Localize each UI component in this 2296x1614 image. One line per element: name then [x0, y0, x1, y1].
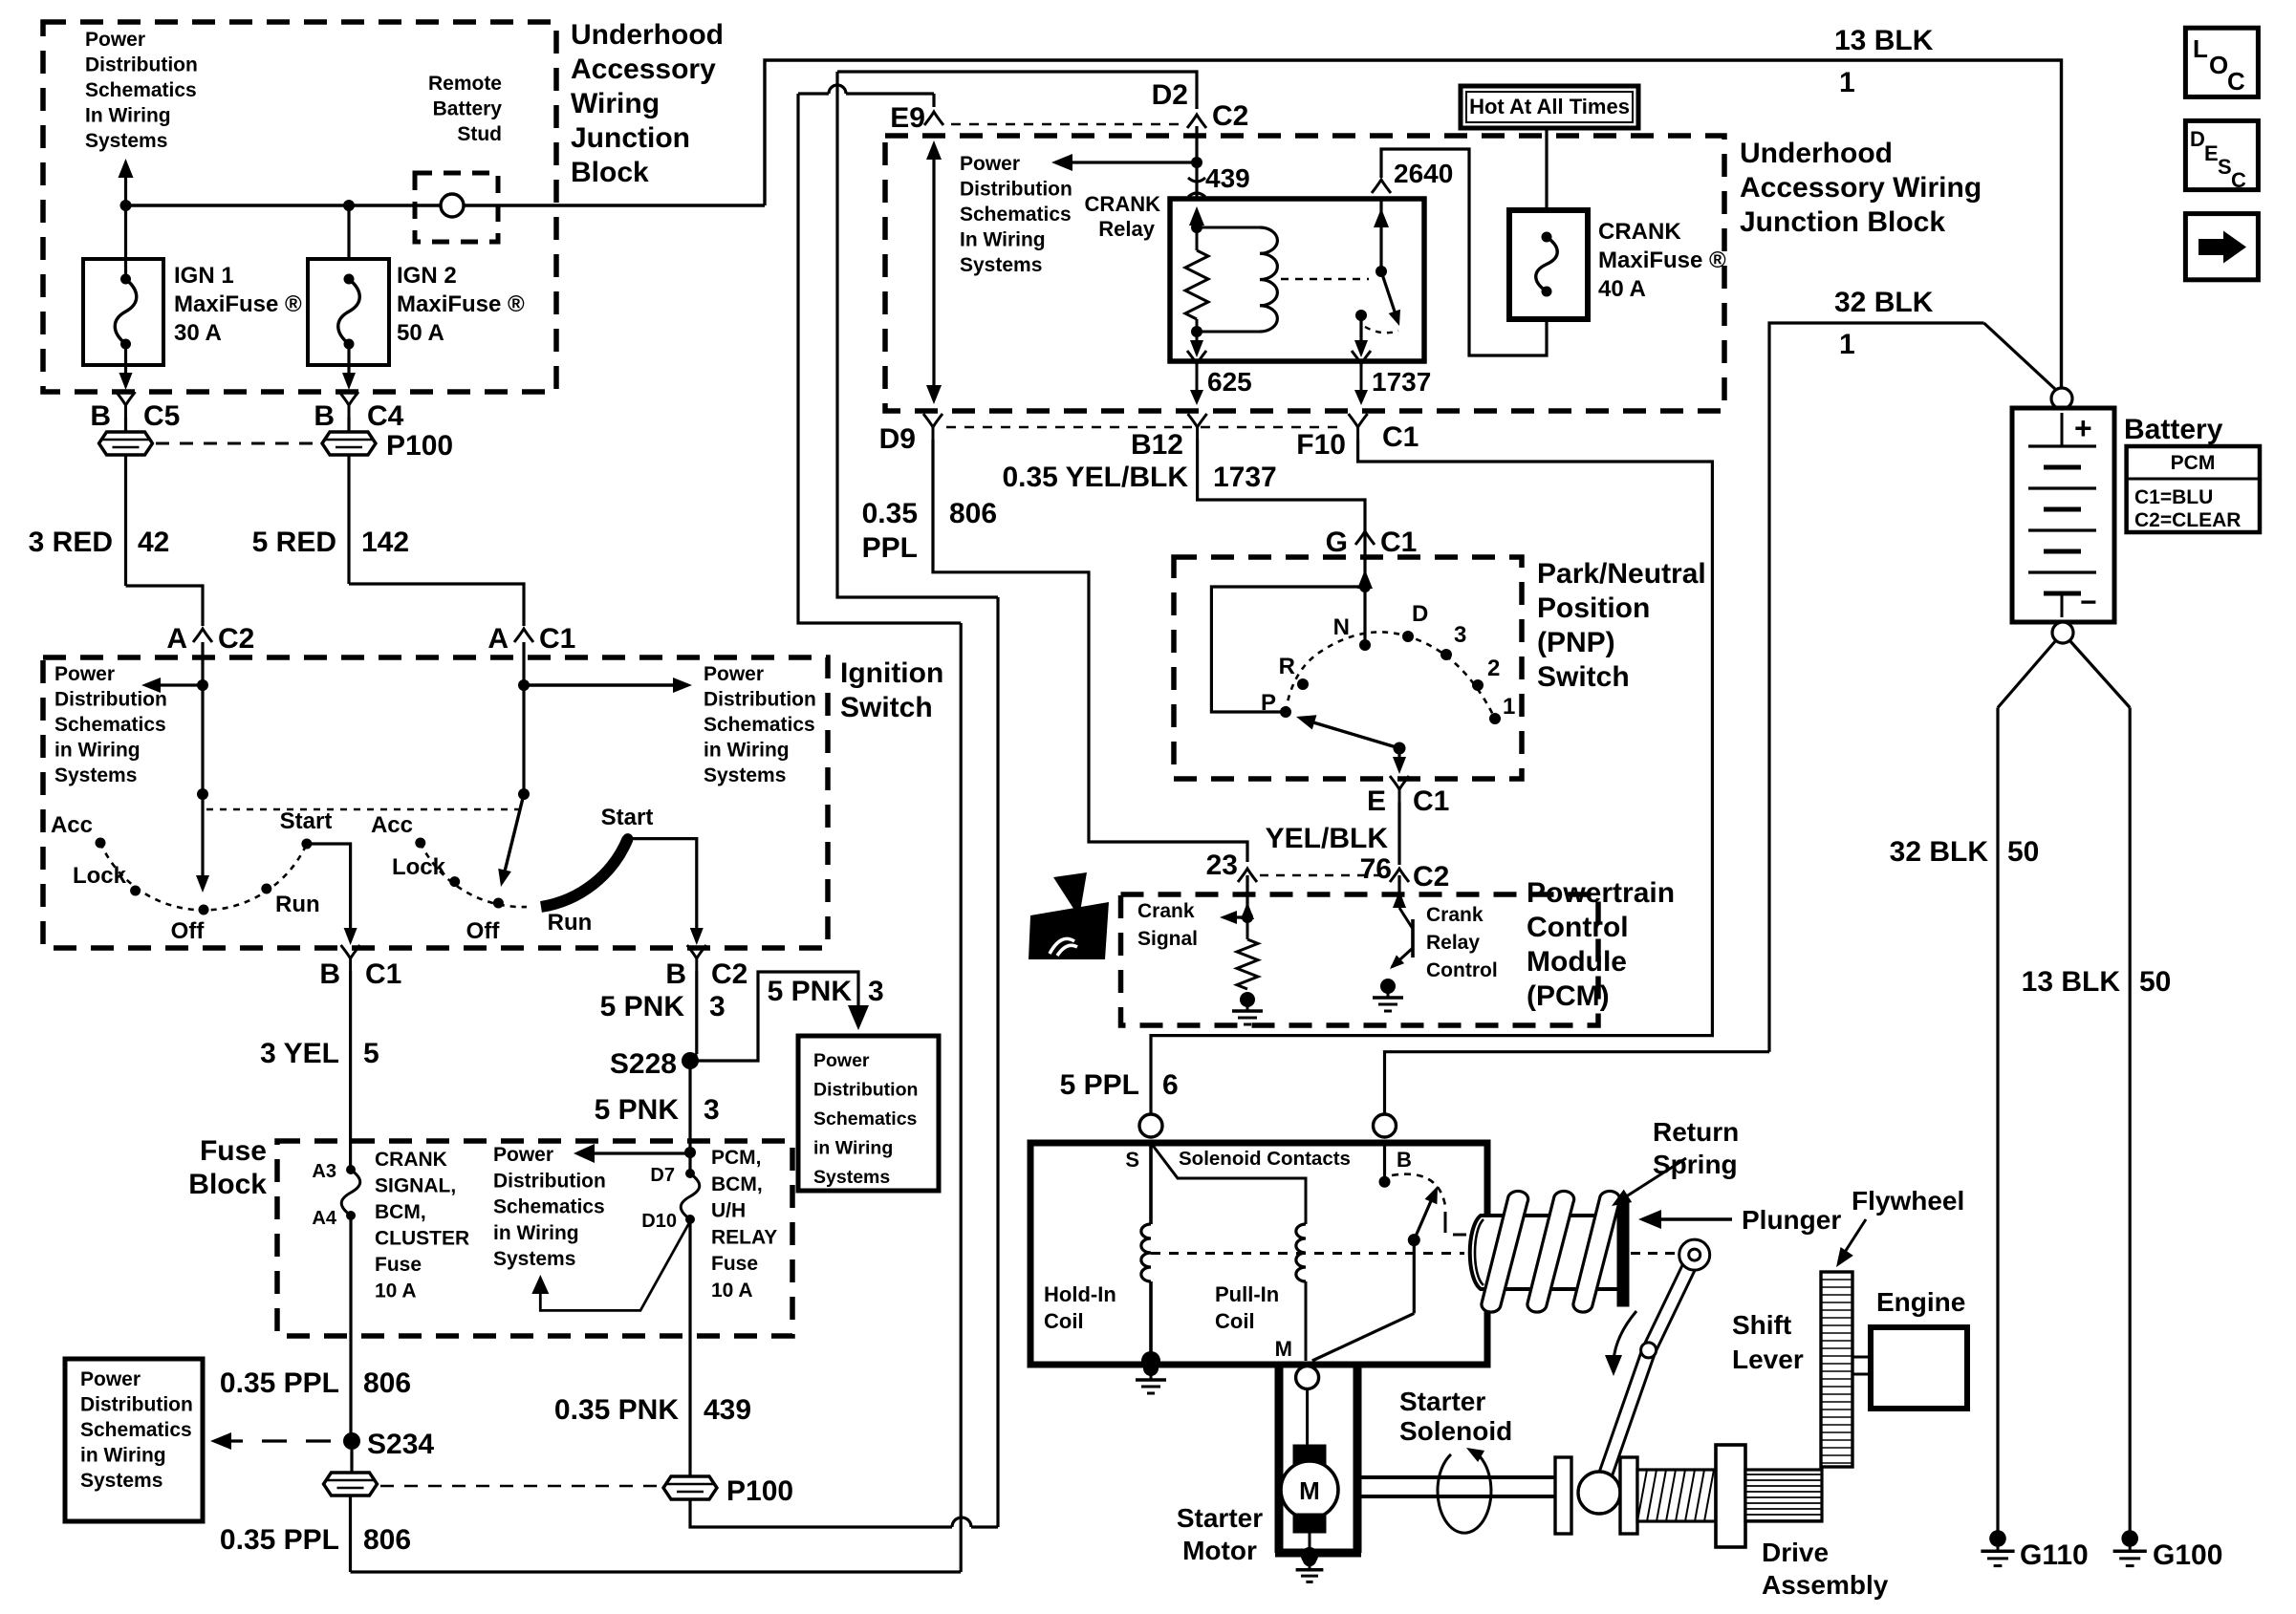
wire Start right to B C2 — [628, 839, 697, 937]
svg-text:3: 3 — [704, 1094, 720, 1126]
svg-text:Lock: Lock — [392, 854, 446, 880]
terminal B circle — [1374, 1114, 1397, 1137]
relay switch pivot — [1375, 266, 1387, 277]
ground G110 — [1989, 1530, 2006, 1547]
svg-text:10 A: 10 A — [711, 1280, 753, 1302]
shift lever top eye — [1679, 1239, 1710, 1270]
svg-text:G100: G100 — [2153, 1539, 2222, 1571]
relay node top — [1191, 222, 1202, 233]
wire S228 branch — [690, 972, 858, 1061]
svg-text:806: 806 — [363, 1524, 411, 1556]
arrow fuse block power dist — [589, 1151, 690, 1154]
svg-text:Powertrain: Powertrain — [1527, 877, 1675, 909]
plunger body — [1470, 1216, 1619, 1289]
splice S228 — [682, 1052, 699, 1069]
svg-text:B: B — [665, 958, 686, 990]
svg-text:50: 50 — [2139, 966, 2171, 998]
svg-text:C1: C1 — [365, 958, 401, 990]
return spring arrow — [1617, 1158, 1686, 1202]
battery ground split — [1998, 640, 2056, 708]
motor brush bottom — [1293, 1514, 1326, 1533]
svg-text:in Wiring: in Wiring — [493, 1222, 579, 1244]
relay dashed link — [1281, 278, 1369, 281]
svg-text:Fuse: Fuse — [375, 1254, 422, 1276]
svg-text:Junction Block: Junction Block — [1740, 206, 1945, 238]
wire 32 BLK — [1769, 323, 1984, 1052]
desc box — [2185, 120, 2258, 189]
svg-text:40 A: 40 A — [1598, 276, 1646, 302]
svg-text:MaxiFuse ®: MaxiFuse ® — [174, 291, 302, 317]
wire D10 to P100 — [688, 1219, 691, 1476]
svg-text:1: 1 — [1839, 329, 1855, 360]
svg-text:32 BLK: 32 BLK — [1890, 836, 1989, 868]
svg-text:BCM,: BCM, — [711, 1173, 763, 1195]
svg-text:42: 42 — [138, 527, 169, 558]
relay switch arm — [1381, 271, 1397, 317]
svg-text:Remote: Remote — [428, 73, 502, 95]
svg-text:D9: D9 — [879, 423, 916, 455]
relay node bottom — [1191, 326, 1202, 337]
pinion striped — [1745, 1470, 1822, 1521]
svg-text:Coil: Coil — [1215, 1309, 1255, 1333]
svg-text:0.35 PPL: 0.35 PPL — [220, 1367, 339, 1399]
flywheel — [1821, 1272, 1852, 1467]
svg-text:C2: C2 — [1212, 100, 1248, 132]
svg-text:0.35 YEL/BLK: 0.35 YEL/BLK — [1002, 462, 1188, 493]
svg-text:Distribution: Distribution — [704, 689, 816, 711]
svg-text:3: 3 — [709, 991, 726, 1022]
contact Acc left — [96, 838, 106, 849]
pnp feed elbow — [1211, 587, 1365, 712]
svg-text:5 RED: 5 RED — [252, 527, 336, 558]
svg-text:G: G — [1326, 527, 1348, 558]
svg-text:Power: Power — [85, 29, 145, 51]
wire to P100 left — [124, 418, 127, 432]
svg-text:PPL: PPL — [862, 532, 918, 564]
svg-text:439: 439 — [704, 1394, 751, 1426]
svg-text:Engine: Engine — [1876, 1287, 1965, 1317]
svg-text:Systems: Systems — [960, 254, 1042, 276]
dashed link lower P100 pair — [380, 1485, 660, 1488]
contact arc right dashed — [421, 843, 527, 907]
svg-text:Wiring: Wiring — [571, 88, 660, 119]
contact Start left — [301, 839, 312, 850]
svg-text:Block: Block — [188, 1169, 267, 1200]
svg-text:C1: C1 — [1382, 421, 1419, 453]
moving contact dashes — [1444, 1212, 1447, 1233]
wire IGN2 drop — [347, 205, 350, 259]
connector row C1 dashed — [946, 426, 1346, 429]
junction block 1 dashed box — [43, 22, 556, 392]
solenoid box — [1030, 1143, 1487, 1365]
svg-text:N: N — [1333, 614, 1350, 640]
relay down arrow left — [1196, 332, 1199, 348]
wire G into pnp — [1363, 531, 1366, 587]
contact Off left — [199, 905, 209, 915]
svg-text:6: 6 — [1162, 1069, 1179, 1101]
svg-text:G110: G110 — [2020, 1539, 2089, 1571]
battery box — [2012, 408, 2114, 622]
svg-text:D10: D10 — [641, 1211, 677, 1232]
engine box — [1871, 1327, 1967, 1409]
solenoid ground — [1141, 1351, 1160, 1370]
relay coil feed arrow — [1189, 206, 1204, 226]
fuse A3 A4 — [346, 1165, 356, 1174]
wire 5 PNK 3 down — [688, 1061, 691, 1173]
motor brush top — [1293, 1445, 1326, 1464]
svg-text:Underhood: Underhood — [1740, 138, 1893, 169]
svg-text:1: 1 — [1503, 694, 1515, 720]
return spring coils — [1482, 1191, 1528, 1312]
svg-text:13 BLK: 13 BLK — [2022, 966, 2121, 998]
svg-text:3 RED: 3 RED — [29, 527, 113, 558]
wire PNK bottom to corner — [971, 1525, 998, 1528]
svg-text:C1: C1 — [539, 623, 575, 655]
pcm legend box — [2127, 446, 2260, 532]
svg-text:B12: B12 — [1131, 429, 1183, 461]
svg-text:Systems: Systems — [813, 1167, 890, 1188]
pointer to power dist — [540, 1221, 690, 1310]
svg-text:Assembly: Assembly — [1762, 1570, 1889, 1600]
svg-text:10 A: 10 A — [375, 1280, 417, 1302]
wire S to holdin — [1149, 1143, 1153, 1224]
mech dashes to lever — [1631, 1252, 1675, 1255]
connector B C5 — [117, 392, 136, 418]
crank maxifuse box — [1509, 210, 1588, 319]
svg-text:23: 23 — [1206, 850, 1238, 881]
svg-text:142: 142 — [361, 527, 409, 558]
svg-text:Starter: Starter — [1399, 1387, 1485, 1416]
svg-text:Signal: Signal — [1137, 928, 1198, 950]
pcm transistor ground — [1380, 979, 1396, 994]
svg-text:P100: P100 — [726, 1475, 793, 1507]
node crank signal — [1242, 912, 1253, 923]
svg-text:D: D — [2190, 127, 2205, 151]
svg-text:Accessory Wiring: Accessory Wiring — [1740, 172, 1982, 204]
svg-text:Flywheel: Flywheel — [1852, 1186, 1964, 1216]
node IGN2 branch — [343, 200, 355, 211]
node left ign lower — [197, 788, 208, 800]
svg-text:B: B — [90, 400, 111, 432]
contact 3 — [1440, 649, 1452, 660]
node right ign lower — [518, 788, 530, 800]
svg-text:C5: C5 — [143, 400, 180, 432]
contact 2 — [1472, 679, 1484, 691]
connector B C1 ign — [341, 945, 360, 971]
svg-text:Schematics: Schematics — [54, 714, 166, 736]
wire to N contact — [1363, 587, 1366, 640]
svg-text:5: 5 — [363, 1038, 379, 1069]
pullin coil — [1296, 1224, 1306, 1281]
connector B C2 ign — [687, 945, 706, 971]
wire contact to M — [1413, 1240, 1416, 1314]
shift lever ball — [1578, 1472, 1620, 1514]
svg-text:in Wiring: in Wiring — [54, 740, 141, 762]
svg-text:(PCM): (PCM) — [1527, 980, 1610, 1012]
pcm pin 76 C2 — [1390, 869, 1409, 882]
wire 3 YEL 5 — [349, 971, 352, 1170]
svg-text:Park/Neutral: Park/Neutral — [1537, 558, 1706, 590]
svg-text:Plunger: Plunger — [1742, 1205, 1841, 1235]
hop PNK over PPL — [952, 1517, 971, 1527]
wire 0.35 PPL 806 lower — [349, 1496, 352, 1572]
svg-text:Schematics: Schematics — [493, 1196, 605, 1218]
svg-text:CLUSTER: CLUSTER — [375, 1228, 469, 1250]
contact Lock left — [130, 886, 141, 896]
moving contact — [1408, 1234, 1420, 1246]
node IGN1 branch — [120, 200, 132, 211]
wire pin 23 into pcm — [1245, 875, 1248, 911]
internal wire E9-D9 — [932, 148, 935, 397]
svg-text:D7: D7 — [650, 1165, 675, 1186]
junction block 2 dashed box — [885, 136, 1724, 411]
svg-text:A4: A4 — [312, 1208, 336, 1229]
flywheel arrow — [1840, 1219, 1866, 1259]
wire 13 BLK 50 — [2129, 708, 2132, 1532]
svg-text:D2: D2 — [1152, 79, 1188, 111]
pcm pin 23 — [1238, 869, 1257, 882]
svg-text:5 PPL: 5 PPL — [1060, 1069, 1139, 1101]
svg-text:Relay: Relay — [1426, 932, 1480, 954]
connector D2 — [1187, 115, 1206, 128]
pcm resistor — [1246, 917, 1249, 939]
svg-text:B: B — [1397, 1148, 1412, 1172]
rotation arrow — [1438, 1451, 1491, 1533]
svg-text:P: P — [1261, 690, 1276, 716]
connector F10 — [1349, 414, 1368, 440]
node D7 branch — [684, 1147, 696, 1158]
svg-text:C2: C2 — [1413, 861, 1449, 893]
svg-text:C: C — [2227, 67, 2245, 96]
pcm connector row dashed — [1260, 874, 1386, 876]
engine nub — [1852, 1357, 1871, 1374]
wire holdin to ground — [1149, 1281, 1153, 1361]
svg-text:Control: Control — [1426, 959, 1498, 981]
grommet P100 upper-left — [99, 432, 153, 455]
svg-text:Crank: Crank — [1137, 900, 1195, 922]
motor frame — [1275, 1365, 1284, 1553]
battery bottom terminal — [2052, 622, 2073, 643]
wire PPL elbow top — [798, 94, 961, 623]
svg-text:Drive: Drive — [1762, 1538, 1829, 1567]
contact N — [1359, 639, 1371, 651]
svg-text:S: S — [1125, 1148, 1139, 1172]
contact R — [1297, 678, 1309, 690]
svg-text:−: − — [2080, 587, 2097, 618]
svg-text:625: 625 — [1207, 367, 1252, 397]
svg-text:Systems: Systems — [704, 764, 786, 786]
svg-text:Switch: Switch — [1537, 661, 1630, 693]
svg-text:In Wiring: In Wiring — [960, 229, 1046, 251]
wire B from 32BLK — [1385, 1052, 1770, 1137]
svg-text:Position: Position — [1537, 592, 1650, 624]
svg-text:0.35 PPL: 0.35 PPL — [220, 1524, 339, 1556]
svg-text:Distribution: Distribution — [813, 1080, 918, 1101]
wire elbow to A C1 — [349, 584, 524, 626]
wire PNK to D2 run — [837, 72, 1197, 109]
fuse D7 D10 — [685, 1169, 695, 1178]
wire A C2 into switch — [201, 642, 204, 883]
grommet P100 upper-right — [322, 432, 376, 455]
wire PNK bottom run — [690, 1499, 952, 1527]
svg-text:Systems: Systems — [493, 1248, 575, 1270]
wire A4 down to S234 — [349, 1216, 352, 1435]
plunger end plate — [1617, 1200, 1629, 1306]
svg-text:(PNP): (PNP) — [1537, 627, 1615, 658]
wire PPL to E9 with hop — [798, 92, 829, 95]
wire D2 to relay — [1195, 126, 1198, 199]
arrow right power dist — [524, 683, 681, 686]
crank maxifuse element — [1542, 232, 1552, 243]
svg-text:in Wiring: in Wiring — [704, 740, 790, 762]
svg-text:C2: C2 — [711, 958, 747, 990]
svg-text:Systems: Systems — [85, 130, 167, 152]
svg-text:2: 2 — [1487, 656, 1500, 681]
loc box — [2185, 28, 2258, 97]
svg-text:MaxiFuse ®: MaxiFuse ® — [1598, 247, 1726, 273]
svg-text:F10: F10 — [1296, 429, 1346, 461]
pcm dashed box — [1121, 894, 1599, 1025]
svg-text:SIGNAL,: SIGNAL, — [375, 1175, 456, 1197]
motor ground — [1301, 1547, 1318, 1564]
wire 5 PPL 6 from F10 — [1151, 440, 1712, 1115]
thick arc Run-Start — [541, 839, 628, 907]
contact D — [1402, 631, 1414, 642]
svg-text:Run: Run — [275, 892, 320, 917]
svg-text:CRANK: CRANK — [1598, 219, 1681, 245]
svg-text:in Wiring: in Wiring — [813, 1138, 893, 1159]
grommet P100 lower-left — [324, 1473, 378, 1496]
svg-text:IGN 1: IGN 1 — [174, 263, 234, 289]
power distribution box bottom left — [65, 1359, 203, 1521]
svg-text:S228: S228 — [610, 1048, 677, 1080]
pnp contact arc — [1286, 632, 1495, 719]
svg-text:Start: Start — [280, 808, 333, 834]
svg-text:Lock: Lock — [73, 863, 127, 889]
wire pullin down — [1305, 1281, 1308, 1361]
svg-text:E: E — [2204, 141, 2219, 165]
wire M down — [1306, 1388, 1309, 1445]
svg-text:Distribution: Distribution — [493, 1170, 606, 1192]
svg-text:U/H: U/H — [711, 1200, 746, 1222]
drive plate 2 — [1620, 1457, 1637, 1534]
svg-text:Distribution: Distribution — [54, 689, 167, 711]
shaft end plate — [1555, 1457, 1571, 1534]
svg-text:1737: 1737 — [1372, 367, 1431, 397]
svg-text:1: 1 — [1839, 67, 1855, 98]
svg-text:Schematics: Schematics — [813, 1108, 918, 1130]
svg-text:A: A — [166, 623, 187, 655]
svg-text:MaxiFuse ®: MaxiFuse ® — [397, 291, 525, 317]
svg-text:Power: Power — [493, 1144, 553, 1166]
wire elbow to A C2 — [126, 586, 204, 626]
contact P — [1280, 706, 1291, 718]
connector G C1 — [1355, 531, 1375, 545]
svg-text:0.35 PNK: 0.35 PNK — [554, 1394, 679, 1426]
svg-text:C2: C2 — [218, 623, 254, 655]
crank relay box — [1170, 199, 1424, 361]
arrow 439 power dist — [1063, 161, 1197, 163]
svg-text:76: 76 — [1360, 853, 1392, 885]
mech dashed line — [1151, 1252, 1464, 1255]
svg-text:Return: Return — [1653, 1117, 1739, 1147]
svg-text:A3: A3 — [312, 1161, 336, 1182]
svg-text:Module: Module — [1527, 946, 1627, 978]
svg-text:Motor: Motor — [1182, 1536, 1257, 1565]
pcm transistor — [1411, 919, 1415, 958]
connector 2640 — [1372, 180, 1391, 193]
svg-text:Acc: Acc — [51, 812, 93, 838]
svg-text:B: B — [314, 400, 335, 432]
svg-text:P100: P100 — [386, 430, 453, 462]
fuse IGN1 element — [120, 274, 131, 285]
wire PNK elbow top — [837, 72, 998, 597]
contact Run left — [261, 884, 271, 894]
switch arm right — [504, 794, 524, 875]
wire S228 jog — [690, 1054, 697, 1061]
svg-text:Solenoid Contacts: Solenoid Contacts — [1179, 1148, 1351, 1170]
svg-text:Spring: Spring — [1653, 1150, 1738, 1179]
pnp output wire — [1397, 748, 1400, 764]
svg-text:Battery: Battery — [2124, 414, 2223, 445]
wire 3 RED 42 — [124, 455, 127, 586]
wire PPL up right — [960, 623, 963, 1572]
node right ign top — [518, 679, 530, 691]
connector E9 — [924, 112, 943, 125]
svg-text:E: E — [1367, 785, 1386, 817]
wire hot to maxifuse — [1545, 128, 1548, 210]
dashed arrow S234 to power dist box — [222, 1439, 331, 1442]
wire 5 RED 142 — [347, 455, 350, 584]
svg-text:Schematics: Schematics — [704, 714, 815, 736]
pnp dashed box — [1174, 557, 1522, 779]
drive big plate — [1716, 1445, 1745, 1547]
svg-text:S234: S234 — [367, 1429, 434, 1460]
connector D9 — [923, 414, 942, 440]
svg-text:Start: Start — [601, 805, 654, 830]
svg-text:Stud: Stud — [457, 123, 502, 145]
terminal M circle — [1296, 1367, 1319, 1389]
motor circle — [1281, 1461, 1338, 1518]
svg-text:Distribution: Distribution — [960, 179, 1072, 201]
svg-text:C4: C4 — [367, 400, 404, 432]
wire S to pullin — [1151, 1143, 1306, 1224]
svg-text:30 A: 30 A — [174, 320, 222, 346]
contact B dot — [1379, 1176, 1391, 1188]
node pnp — [1359, 581, 1371, 592]
shift lever rod — [1592, 1252, 1700, 1495]
svg-text:M: M — [1299, 1476, 1320, 1505]
svg-text:Underhood: Underhood — [571, 19, 724, 51]
svg-text:D: D — [1412, 601, 1428, 627]
relay switch travel arc — [1365, 327, 1398, 333]
relay switch contact — [1355, 310, 1367, 321]
svg-text:Pull-In: Pull-In — [1215, 1282, 1279, 1306]
svg-text:5 PNK: 5 PNK — [595, 1094, 680, 1126]
main bus wire JB1 — [126, 204, 766, 206]
svg-text:439: 439 — [1205, 163, 1250, 193]
wire Start left to B C1 — [307, 844, 351, 937]
ground G100 — [2121, 1530, 2138, 1547]
contact Acc right — [415, 838, 425, 849]
svg-text:32 BLK: 32 BLK — [1834, 287, 1934, 318]
battery cells — [2061, 413, 2064, 446]
svg-text:C: C — [2231, 168, 2246, 192]
svg-text:3: 3 — [868, 976, 884, 1007]
svg-text:Distribution: Distribution — [85, 54, 198, 76]
svg-text:C1: C1 — [1380, 527, 1417, 558]
svg-text:Fuse: Fuse — [200, 1135, 267, 1167]
